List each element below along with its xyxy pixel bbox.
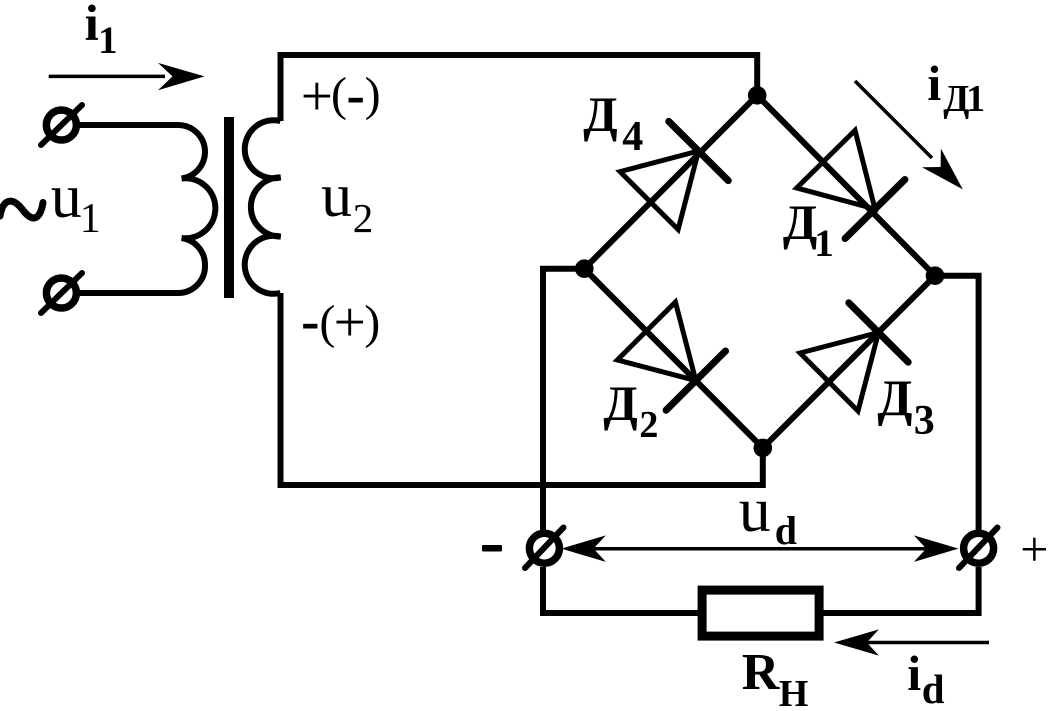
wire: bridge branch left node to top node (D4 branch) (584, 95, 757, 268)
wire: bridge branch top node to right node (D1 branch) (757, 95, 935, 275)
arrow u_d double-headed (561, 535, 958, 562)
arrow i_d (834, 629, 989, 655)
tilde AC symbol (0, 201, 43, 218)
label +(-) (301, 68, 333, 125)
diode D2 (617, 301, 726, 410)
diode D4 (619, 121, 728, 230)
wire: bridge branch left node to bottom node (D2 branch) (584, 269, 763, 448)
diode D1 (796, 130, 905, 239)
label i_D1 (927, 58, 941, 108)
label u_d (739, 478, 771, 542)
transformer core (224, 117, 234, 298)
label D4 (583, 89, 617, 139)
arrow i_D1 (855, 81, 972, 199)
wire: secondary top to bridge top node (281, 55, 758, 121)
label u1 (51, 166, 82, 228)
label i1 (85, 0, 99, 50)
secondary winding of transformer T1 (245, 120, 281, 294)
arrow i1 (49, 63, 205, 90)
junction node top (748, 86, 767, 105)
resistor RH body (702, 590, 819, 636)
wire: top input terminal to primary winding (79, 122, 178, 128)
wire: secondary bottom down and right to bridge bottom node (281, 293, 763, 485)
label minus at output terminal (482, 545, 502, 552)
wire: bottom loop with load resistor (543, 567, 979, 613)
label R_H (742, 647, 780, 699)
label D1 (783, 197, 817, 247)
junction node bottom (754, 439, 773, 458)
wire: right node stub down to plus terminal (935, 276, 979, 530)
diode D3 (799, 303, 908, 412)
wire: bottom input terminal to primary winding (79, 290, 178, 296)
input terminal bottom (41, 273, 82, 313)
label -(+) (301, 293, 319, 348)
wire: bridge branch bottom node to right node (D3 branch) (763, 276, 935, 448)
label u2 (321, 165, 352, 227)
input terminal top (41, 105, 82, 145)
label i_d (907, 648, 921, 698)
wire: left node stub down to minus terminal (543, 269, 584, 530)
output terminal minus (525, 528, 564, 569)
label plus at output terminal (1020, 524, 1048, 574)
label D3 (877, 374, 912, 425)
primary winding of transformer T1 (178, 125, 215, 293)
junction node left (575, 259, 594, 278)
junction node right (926, 266, 945, 285)
label D2 (603, 378, 637, 428)
output terminal plus (959, 528, 998, 569)
